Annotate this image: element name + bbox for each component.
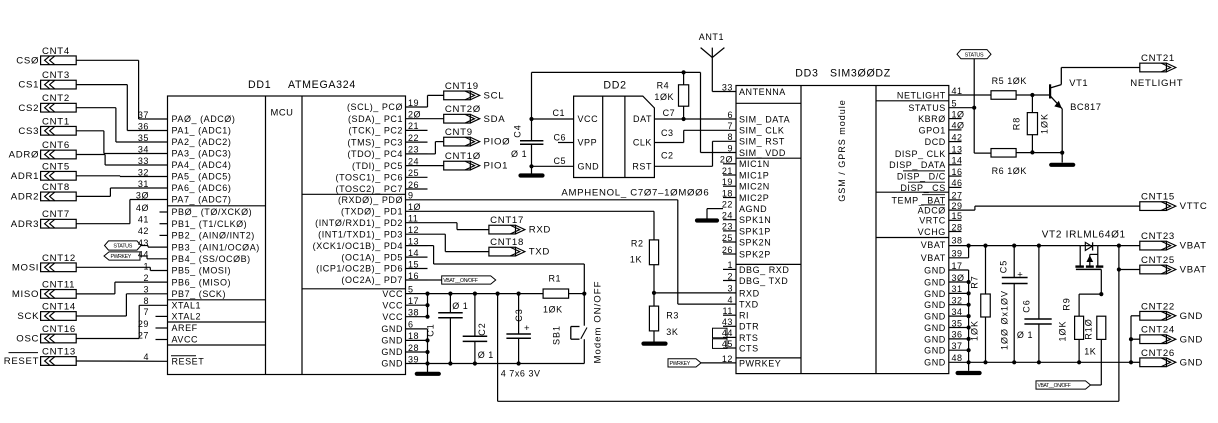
svg-text:NETLIGHT: NETLIGHT [1130, 78, 1183, 89]
svg-text:ANTENNA: ANTENNA [739, 87, 786, 97]
svg-text:VTTC: VTTC [1180, 201, 1208, 212]
svg-text:23: 23 [408, 145, 419, 155]
svg-text:(SDA)_ PC1: (SDA)_ PC1 [348, 114, 403, 124]
svg-text:CNT9: CNT9 [445, 127, 473, 138]
resistor R5 10K [991, 91, 1016, 100]
svg-text:9: 9 [727, 143, 733, 153]
wire GND bracket pins 6,18,28 [427, 329, 429, 364]
svg-text:PWRKEY: PWRKEY [670, 361, 691, 367]
svg-text:3K: 3K [666, 327, 678, 337]
svg-text:MIC1P: MIC1P [739, 170, 769, 180]
resistor R8 10K (base-emitter) [1031, 95, 1033, 113]
wire STATUS net vertical [973, 59, 975, 153]
capacitor C5 100.0x10V electrolytic [1012, 244, 1016, 248]
svg-text:(RXDØ)_ PDØ: (RXDØ)_ PDØ [338, 195, 403, 205]
svg-text:VBAT: VBAT [1180, 241, 1207, 252]
svg-text:25: 25 [722, 233, 733, 243]
svg-text:ADCØ: ADCØ [918, 206, 946, 216]
wire ADR0 to DD1 [76, 154, 105, 156]
svg-text:GND: GND [924, 312, 946, 322]
svg-text:C5: C5 [554, 156, 567, 166]
svg-text:Ø 1: Ø 1 [1017, 330, 1033, 340]
svg-text:VT2 IRLML64Ø1: VT2 IRLML64Ø1 [1042, 230, 1126, 241]
svg-text:C4: C4 [513, 124, 523, 138]
svg-text:CNT1: CNT1 [42, 116, 70, 127]
svg-text:DBG_ TXD: DBG_ TXD [739, 276, 788, 286]
svg-text:Ø 1: Ø 1 [511, 149, 527, 159]
svg-text:3Ø: 3Ø [952, 273, 965, 283]
svg-text:VBAT: VBAT [921, 253, 946, 263]
connector CNT17 [489, 225, 516, 234]
svg-text:(SCL)_ PCØ: (SCL)_ PCØ [347, 102, 403, 112]
capacitor C6 0.1 [1037, 244, 1041, 248]
svg-text:SPK1P: SPK1P [739, 226, 771, 236]
wire DD3 pin5 STATUS [949, 107, 974, 109]
ground (R3) [653, 331, 655, 342]
svg-text:4: 4 [727, 295, 733, 305]
svg-text:DISP_ DATA: DISP_ DATA [889, 160, 946, 170]
svg-text:(OC1A)_ PD5: (OC1A)_ PD5 [341, 252, 403, 262]
svg-text:42: 42 [952, 132, 963, 142]
svg-text:VCC: VCC [382, 300, 403, 310]
svg-text:13: 13 [952, 144, 963, 154]
svg-text:41: 41 [952, 86, 963, 96]
IC DD1 ATMEGA324 (MCU) [168, 96, 406, 375]
svg-text:48: 48 [952, 353, 963, 363]
svg-text:C1: C1 [426, 323, 436, 337]
svg-text:11: 11 [723, 306, 733, 316]
svg-text:C6: C6 [554, 133, 567, 143]
svg-text:1: 1 [143, 261, 149, 271]
svg-text:CNT19: CNT19 [445, 81, 479, 92]
ground (DD1) [427, 364, 429, 373]
svg-text:SIM_ RST: SIM_ RST [739, 137, 785, 147]
svg-text:GND: GND [381, 359, 403, 369]
connector CNT15 [1140, 202, 1167, 211]
svg-text:21: 21 [408, 121, 419, 131]
svg-text:2: 2 [143, 273, 149, 283]
connector CNT21 [1140, 63, 1167, 72]
svg-text:VBAT: VBAT [1180, 265, 1207, 276]
transistor VT1 BC817 [1032, 94, 1050, 96]
wire DD1 PC0 to CNT19 [427, 95, 429, 107]
wire ANT1 to DD3 pin33 [712, 91, 736, 93]
svg-text:(INT1/TXD1)_ PD3: (INT1/TXD1)_ PD3 [318, 229, 403, 239]
svg-text:ADR3: ADR3 [11, 219, 39, 230]
svg-text:C2: C2 [477, 322, 487, 336]
svg-text:(ICP1/OC2B)_ PD6: (ICP1/OC2B)_ PD6 [316, 264, 403, 274]
svg-text:SPK1N: SPK1N [739, 215, 771, 225]
connector CNT5 [41, 171, 77, 180]
svg-text:38: 38 [952, 235, 963, 245]
svg-text:PA3_ (ADC3): PA3_ (ADC3) [172, 149, 232, 159]
connector CNT7 [41, 219, 77, 228]
svg-text:PBØ_ (TØ/XCKØ): PBØ_ (TØ/XCKØ) [172, 207, 253, 217]
svg-text:CLK: CLK [633, 138, 652, 148]
svg-text:(TOSC1)_ PC6: (TOSC1)_ PC6 [336, 173, 403, 183]
wire DD1 PD4 to SB1/R1 junction [428, 245, 434, 247]
svg-text:CNT4: CNT4 [42, 46, 70, 57]
svg-text:SIM_ DATA: SIM_ DATA [739, 114, 790, 124]
svg-text:PA7_ (ADC7): PA7_ (ADC7) [172, 195, 232, 205]
svg-text:+: + [1017, 270, 1023, 281]
svg-text:CNT2Ø: CNT2Ø [445, 104, 481, 115]
svg-text:STATUS: STATUS [113, 244, 132, 250]
wire GND pins 32,34,35,36,37 bracket [968, 293, 970, 362]
svg-text:19: 19 [722, 177, 733, 187]
svg-text:14: 14 [408, 248, 419, 258]
wire ADR2 to DD1 [76, 195, 110, 197]
svg-text:SIM_ VDD: SIM_ VDD [739, 148, 786, 158]
svg-text:CNT25: CNT25 [1141, 255, 1175, 266]
svg-text:SB1: SB1 [552, 325, 562, 345]
svg-text:R5 1ØK: R5 1ØK [992, 76, 1027, 86]
svg-text:MIC2N: MIC2N [739, 182, 770, 192]
svg-text:VBAT: VBAT [921, 240, 946, 250]
flag STATUS (to DD1 pin 43) [105, 241, 142, 250]
svg-text:15: 15 [408, 259, 419, 269]
svg-text:CNT22: CNT22 [1141, 301, 1175, 312]
wire DD3 GND pins rows to bracket [949, 281, 969, 283]
wire DD3 GND bracket pins 17,30,31 [949, 269, 969, 271]
svg-text:1K: 1K [1084, 347, 1096, 357]
svg-text:KBRØ: KBRØ [918, 114, 946, 124]
svg-text:VPP: VPP [578, 138, 598, 148]
svg-text:SCL: SCL [484, 91, 505, 102]
svg-text:DBG_ RXD: DBG_ RXD [739, 265, 789, 275]
svg-text:CNT8: CNT8 [42, 182, 70, 193]
svg-text:C3: C3 [514, 308, 524, 322]
svg-text:22: 22 [408, 133, 419, 143]
svg-text:TXD: TXD [739, 300, 759, 310]
connector CNT23 [1140, 241, 1167, 250]
svg-text:AREF: AREF [172, 323, 198, 333]
svg-text:Ø 1: Ø 1 [452, 301, 468, 311]
svg-text:GND: GND [924, 323, 946, 333]
resistor R7 10K [983, 244, 987, 248]
svg-text:46: 46 [952, 178, 963, 188]
connector CNT13 [41, 357, 77, 366]
svg-text:AVCC: AVCC [172, 335, 199, 345]
svg-text:RESET: RESET [172, 357, 205, 367]
svg-text:1: 1 [727, 260, 733, 270]
svg-text:38: 38 [408, 308, 419, 318]
wire DD1 PC4 to CNT9 [428, 153, 436, 155]
svg-text:34: 34 [952, 307, 963, 317]
connector CNT10 [444, 161, 471, 170]
svg-text:PB6_ (MISO): PB6_ (MISO) [172, 277, 232, 287]
svg-text:26: 26 [722, 245, 733, 255]
svg-text:DISP_ D/C: DISP_ D/C [897, 172, 946, 182]
svg-text:SDA: SDA [484, 114, 506, 125]
GND bracket CNT22/24/26 [1131, 315, 1140, 317]
svg-text:GND: GND [924, 265, 946, 275]
svg-text:CS1: CS1 [18, 80, 39, 91]
svg-text:PB2_ (AINØ/INT2): PB2_ (AINØ/INT2) [172, 231, 255, 241]
svg-text:(XCK1/OC1B)_ PD4: (XCK1/OC1B)_ PD4 [313, 241, 403, 251]
wire MIC1N pin20 stub [723, 163, 736, 165]
svg-text:24: 24 [722, 211, 733, 221]
svg-text:GND: GND [381, 347, 403, 357]
wire DD1 PD1 (TXD0) to R2 [428, 210, 655, 212]
svg-text:AMPHENOL_ C7Ø7–1ØMØØ6: AMPHENOL_ C7Ø7–1ØMØØ6 [561, 188, 709, 199]
connector CNT12 [41, 263, 77, 272]
resistor R1 10K [543, 289, 569, 298]
svg-text:4Ø: 4Ø [952, 121, 965, 131]
svg-text:CNT24: CNT24 [1141, 325, 1175, 336]
wire DD1 PC1 to CNT20 [428, 118, 444, 120]
svg-text:PAØ_ (ADCØ): PAØ_ (ADCØ) [172, 114, 236, 124]
svg-text:R1Ø: R1Ø [1084, 318, 1094, 340]
svg-text:34: 34 [138, 144, 149, 154]
connector CNT3 [41, 80, 77, 89]
svg-text:22: 22 [722, 199, 733, 209]
resistor R3 3K [653, 293, 655, 306]
svg-text:31: 31 [952, 284, 963, 294]
svg-text:3: 3 [143, 285, 149, 295]
svg-text:24: 24 [408, 156, 419, 166]
svg-text:R3: R3 [666, 310, 679, 320]
svg-text:VBAT__ON/OFF: VBAT__ON/OFF [443, 278, 478, 284]
svg-text:SPK2N: SPK2N [739, 237, 771, 247]
svg-text:RESET: RESET [4, 356, 40, 367]
svg-text:4: 4 [143, 352, 149, 362]
svg-text:C5: C5 [999, 260, 1009, 274]
svg-text:XTAL2: XTAL2 [172, 312, 202, 322]
svg-text:32: 32 [952, 296, 963, 306]
svg-text:ANT1: ANT1 [699, 32, 724, 42]
svg-text:C3: C3 [661, 128, 674, 138]
svg-text:33: 33 [138, 156, 149, 166]
svg-text:R4: R4 [657, 81, 670, 91]
svg-text:17: 17 [408, 296, 419, 306]
resistor R4 10K pullup [682, 70, 686, 74]
connector CNT8 [41, 192, 77, 201]
svg-text:1Ø: 1Ø [952, 109, 965, 119]
flag PWRKEY (to DD1 pin 44) [104, 252, 140, 260]
wire DD3 pin38 VBAT rail [949, 245, 1080, 247]
svg-text:R6 1ØK: R6 1ØK [992, 166, 1027, 176]
svg-text:1ØK: 1ØK [1040, 113, 1050, 134]
svg-text:PA2_ (ADC2): PA2_ (ADC2) [172, 137, 232, 147]
svg-text:26: 26 [408, 180, 419, 190]
svg-text:CSØ: CSØ [16, 55, 39, 66]
svg-text:DISP_ CLK: DISP_ CLK [895, 149, 946, 159]
svg-text:RTS: RTS [739, 333, 759, 343]
wire DAT to DD3 pin6 [654, 118, 736, 120]
svg-text:C7: C7 [663, 108, 676, 118]
svg-text:VCHG: VCHG [918, 227, 946, 237]
svg-text:C2: C2 [661, 151, 674, 161]
svg-text:DISP_ CS: DISP_ CS [900, 183, 945, 193]
wire DD1 PD3 to CNT18 [428, 233, 446, 235]
svg-text:GND: GND [924, 346, 946, 356]
svg-text:VRTC: VRTC [919, 216, 946, 226]
wire DD3 pin48 GND rail [949, 361, 1131, 363]
svg-text:GND: GND [924, 289, 946, 299]
svg-text:23: 23 [722, 222, 733, 232]
svg-text:TEMP_ BAT: TEMP_ BAT [892, 195, 946, 205]
svg-text:GND: GND [578, 162, 600, 172]
svg-text:43: 43 [138, 238, 149, 248]
svg-text:1ØØ Øx1ØV: 1ØØ Øx1ØV [1000, 290, 1010, 350]
svg-text:32: 32 [138, 167, 149, 177]
svg-text:PIO1: PIO1 [484, 161, 509, 172]
svg-text:RXD: RXD [529, 225, 551, 236]
svg-text:(TDO)_ PC4: (TDO)_ PC4 [347, 149, 403, 159]
svg-text:VBAT__ON/OFF: VBAT__ON/OFF [1038, 383, 1071, 389]
svg-text:PA4_ (ADC4): PA4_ (ADC4) [172, 160, 232, 170]
svg-text:VCC: VCC [382, 312, 403, 322]
svg-text:PA1_ (ADC1): PA1_ (ADC1) [172, 126, 232, 136]
svg-text:DCD: DCD [925, 137, 946, 147]
svg-text:8: 8 [727, 132, 733, 142]
svg-text:27: 27 [952, 191, 963, 201]
svg-text:CNT7: CNT7 [42, 209, 70, 220]
svg-text:29: 29 [952, 201, 963, 211]
svg-text:GND: GND [924, 358, 946, 368]
connector CNT1 [41, 126, 77, 135]
svg-text:ADRØ: ADRØ [9, 150, 40, 161]
svg-text:21: 21 [722, 166, 733, 176]
svg-text:11: 11 [408, 214, 418, 224]
svg-text:XTAL1: XTAL1 [172, 301, 202, 311]
wire DD3 pin41 NETLIGHT to R5 [949, 94, 991, 96]
svg-text:CNT3: CNT3 [42, 70, 70, 81]
svg-text:16: 16 [408, 271, 419, 281]
svg-text:(TMS)_ PC3: (TMS)_ PC3 [347, 137, 403, 147]
svg-text:RST: RST [632, 162, 652, 172]
svg-text:PA5_ (ADC5): PA5_ (ADC5) [172, 172, 232, 182]
capacitor C4 0.1 (SIM VDD) [531, 72, 533, 140]
wire PWRKEY flag to DD3 pin12 [668, 359, 701, 367]
svg-text:SIM_ CLK: SIM_ CLK [739, 126, 784, 136]
wire OSC to DD1 [76, 338, 139, 340]
svg-text:Modem ON/OFF: Modem ON/OFF [593, 281, 604, 364]
svg-text:PB5_ (MOSI): PB5_ (MOSI) [172, 266, 232, 276]
svg-text:12: 12 [408, 225, 419, 235]
svg-text:6: 6 [408, 320, 414, 330]
svg-text:2Ø: 2Ø [408, 110, 421, 120]
svg-text:PWRKEY: PWRKEY [111, 254, 132, 260]
connector CNT20 [444, 114, 471, 123]
svg-text:+: + [524, 323, 530, 334]
connector CNT25 [1140, 265, 1167, 274]
wire VT1 emitter to ground [1061, 109, 1063, 163]
svg-text:RXD: RXD [739, 288, 760, 298]
svg-text:CNT6: CNT6 [42, 140, 70, 151]
svg-text:2: 2 [727, 271, 733, 281]
node modem power drop [496, 292, 500, 296]
wire VT1 collector to CNT21 [1061, 67, 1140, 69]
resistor R2 1K [649, 240, 658, 265]
svg-text:R8: R8 [1012, 117, 1022, 131]
svg-text:MISO: MISO [12, 289, 39, 300]
connector CNT16 [41, 334, 77, 343]
svg-text:DTR: DTR [739, 322, 759, 332]
svg-text:AGND: AGND [739, 204, 767, 214]
svg-text:BC817: BC817 [1070, 101, 1101, 112]
svg-text:37: 37 [138, 110, 149, 120]
connector CNT6 [41, 150, 77, 159]
connector CNT9 [444, 137, 471, 146]
svg-text:(TCK)_ PC2: (TCK)_ PC2 [348, 126, 403, 136]
capacitor C2 [473, 292, 477, 296]
wire CS3 to DD1 [76, 130, 104, 132]
wire RESET to DD1 [76, 360, 167, 362]
svg-text:R2: R2 [631, 238, 644, 248]
svg-text:43: 43 [722, 317, 733, 327]
svg-text:DD3: DD3 [795, 68, 818, 80]
svg-text:CNT13: CNT13 [42, 346, 76, 357]
svg-text:MOSI: MOSI [12, 262, 39, 273]
svg-text:RI: RI [739, 311, 749, 321]
connector CNT2 [41, 103, 77, 112]
svg-text:ADR1: ADR1 [11, 171, 39, 182]
connector CNT19 [444, 91, 471, 100]
svg-text:9: 9 [408, 191, 414, 201]
svg-text:CNT5: CNT5 [42, 161, 70, 172]
svg-text:GND: GND [924, 300, 946, 310]
wire R2/R3 junction to DD3 RXD pin3 [654, 292, 736, 294]
svg-text:25: 25 [408, 168, 419, 178]
svg-text:35: 35 [138, 133, 149, 143]
wire DD1 PD0 (RXD0) to DD3 TXD pin4 [428, 199, 678, 201]
svg-text:PWRKEY: PWRKEY [739, 358, 781, 368]
IC DD3 SIM300DZ (GSM/GPRS module) [736, 86, 949, 374]
svg-text:7: 7 [143, 307, 149, 317]
svg-text:CNT18: CNT18 [490, 237, 524, 248]
svg-text:NETLIGHT: NETLIGHT [897, 90, 946, 100]
svg-text:SPK2P: SPK2P [739, 249, 771, 259]
svg-text:DD2: DD2 [603, 80, 626, 92]
svg-text:(INTØ/RXD1)_ PD2: (INTØ/RXD1)_ PD2 [315, 218, 403, 228]
svg-text:(TXDØ)_ PD1: (TXDØ)_ PD1 [341, 207, 403, 217]
svg-text:18: 18 [408, 331, 419, 341]
connector CNT22 [1140, 311, 1167, 320]
svg-text:CNT11: CNT11 [42, 279, 75, 290]
svg-text:SIM3ØØDZ: SIM3ØØDZ [830, 68, 891, 80]
wire DD3 pin29 ADC0 to CNT15 [949, 209, 975, 211]
svg-text:15: 15 [952, 211, 963, 221]
svg-text:PB7_ (SCK): PB7_ (SCK) [172, 289, 227, 299]
svg-text:PIOØ: PIOØ [484, 137, 511, 148]
svg-text:VT1: VT1 [1069, 77, 1088, 88]
svg-text:R9: R9 [1062, 297, 1072, 311]
svg-text:1ØK: 1ØK [1058, 320, 1068, 341]
connector CNT11 [41, 290, 77, 299]
svg-text:Ø 1: Ø 1 [478, 350, 494, 360]
capacitor C3 electrolytic 47x6.3V [517, 292, 521, 296]
svg-text:DAT: DAT [633, 114, 652, 124]
wire VCC bracket pins 17,38 [427, 294, 429, 317]
connector CNT24 [1140, 335, 1167, 344]
svg-text:18: 18 [722, 188, 733, 198]
svg-text:CNT23: CNT23 [1141, 231, 1175, 242]
svg-text:PB4_ (SS/OCØB): PB4_ (SS/OCØB) [172, 254, 251, 264]
connector CNT18 [489, 247, 516, 256]
svg-text:7: 7 [727, 121, 733, 131]
svg-text:MIC1N: MIC1N [739, 159, 770, 169]
resistor R10 1K (gate) [1097, 316, 1106, 339]
wire CLK to DD3 pin7 [654, 142, 683, 144]
svg-text:4Ø: 4Ø [136, 203, 149, 213]
ground (C4) [521, 173, 543, 177]
svg-text:17: 17 [952, 261, 963, 271]
svg-text:28: 28 [408, 343, 419, 353]
svg-text:PA6_ (ADC6): PA6_ (ADC6) [172, 183, 232, 193]
wire RST to DD3 pin8 [654, 165, 712, 167]
